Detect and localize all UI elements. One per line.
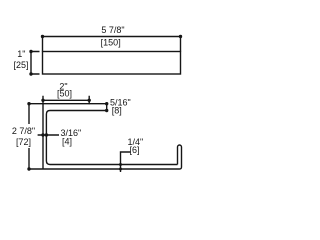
dimension 2 7/8 vertical line (broken for text): [28, 104, 30, 169]
svg-text:[25]: [25]: [13, 60, 28, 70]
svg-text:[8]: [8]: [112, 106, 122, 116]
dimension line 2 inch with extensions: [43, 96, 89, 105]
front view bar rectangle: [43, 52, 181, 75]
svg-text:[6]: [6]: [130, 145, 140, 155]
profile inner wall: [46, 111, 177, 165]
profile outer left edge: [42, 104, 44, 169]
svg-text:[72]: [72]: [16, 137, 31, 147]
profile outer bottom edge + extension + end lip: [29, 145, 182, 169]
texts: [12, 25, 143, 155]
dimension 5/16 vertical: [106, 104, 108, 111]
svg-text:1": 1": [17, 49, 25, 59]
svg-text:[50]: [50]: [57, 89, 72, 99]
leader 3/16 through left wall: [38, 134, 59, 136]
svg-text:2 7/8": 2 7/8": [12, 126, 35, 136]
svg-text:[150]: [150]: [101, 38, 121, 48]
profile outer top edge + extension: [29, 103, 107, 105]
dimension line 5 7/8 with extensions: [43, 37, 181, 52]
svg-text:5 7/8": 5 7/8": [101, 25, 124, 35]
dimension 1 inch vertical line with ticks: [31, 52, 40, 75]
arrow dots: [27, 35, 182, 171]
leader 1/4 through bottom wall: [121, 152, 131, 172]
svg-text:[4]: [4]: [62, 137, 72, 147]
